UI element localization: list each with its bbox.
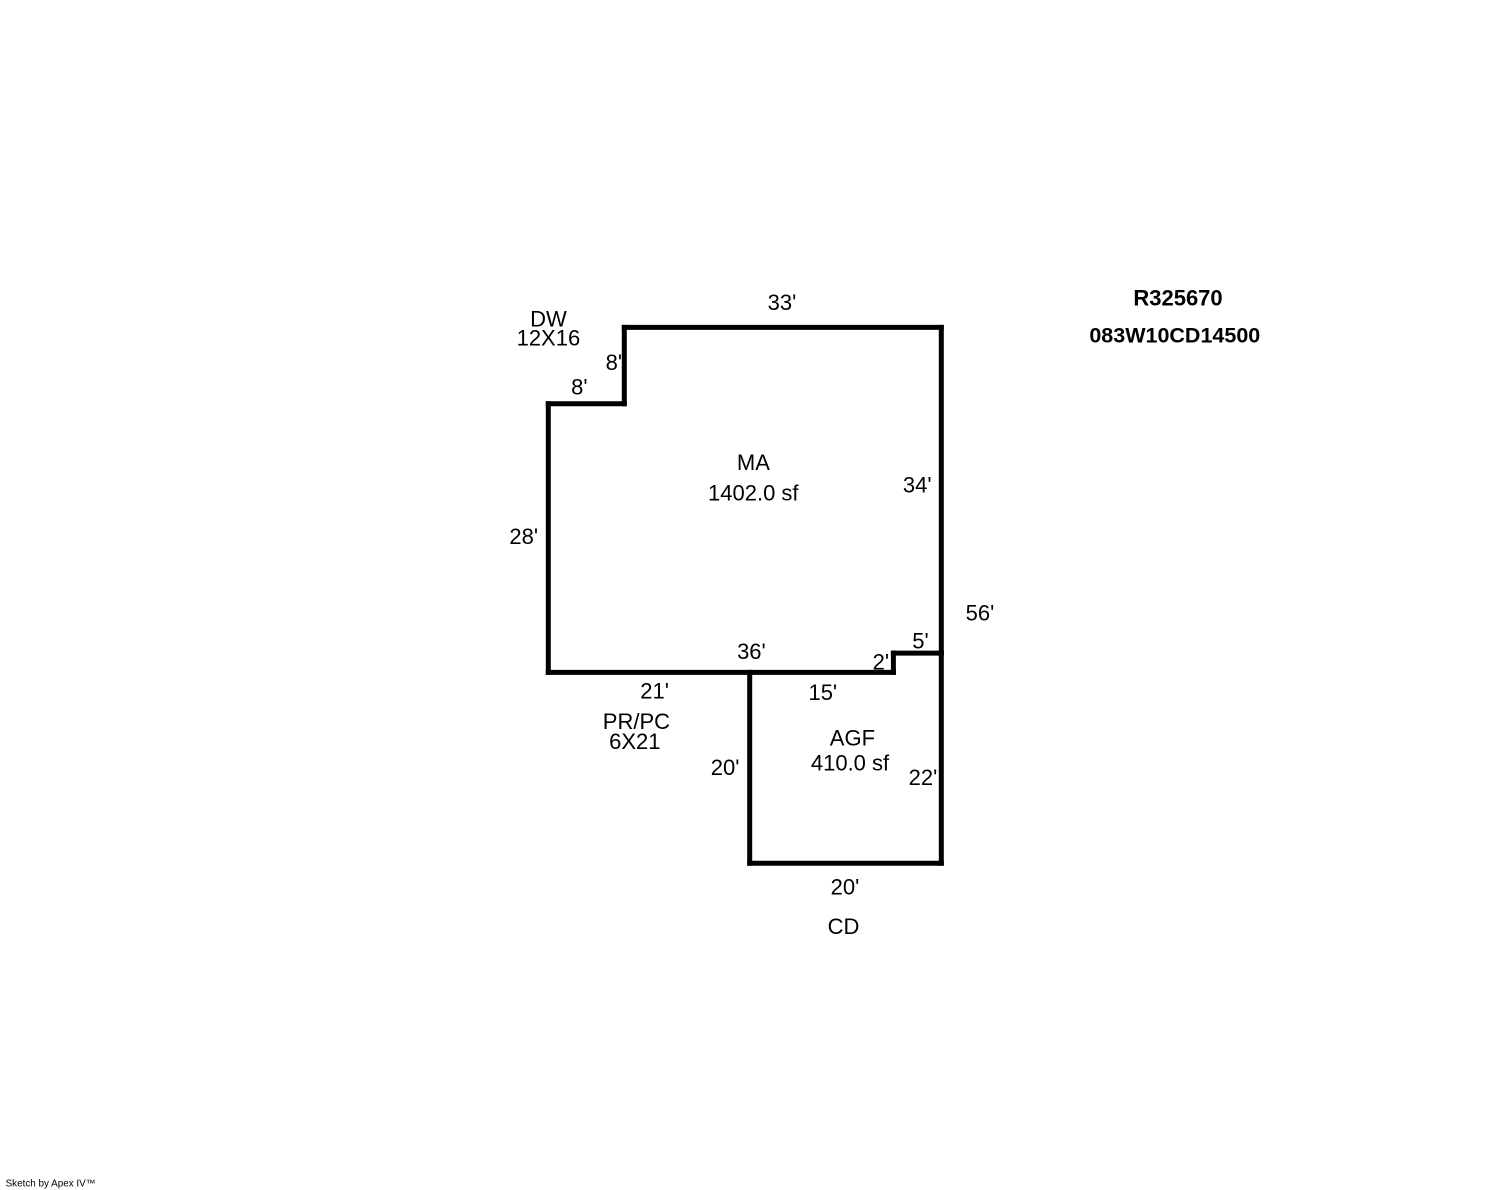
svg-text:8': 8' — [571, 375, 587, 400]
wall: MA notch vertical 8' — [622, 327, 627, 403]
wall: AGF right 22' — [939, 653, 944, 863]
svg-text:20': 20' — [711, 755, 740, 780]
svg-text:36': 36' — [737, 639, 766, 664]
wall: MA top 33' — [624, 325, 941, 330]
svg-text:12X16: 12X16 — [517, 326, 581, 351]
svg-text:R325670: R325670 — [1133, 286, 1222, 311]
svg-text:56': 56' — [966, 600, 995, 625]
svg-text:6X21: 6X21 — [609, 729, 660, 754]
svg-text:28': 28' — [509, 524, 538, 549]
svg-text:2': 2' — [873, 649, 889, 674]
svg-text:1402.0 sf: 1402.0 sf — [708, 481, 799, 506]
svg-text:MA: MA — [737, 450, 770, 475]
wall: MA left 28' — [546, 404, 551, 673]
svg-text:410.0 sf: 410.0 sf — [811, 751, 890, 776]
svg-text:Sketch by Apex IV™: Sketch by Apex IV™ — [6, 1179, 96, 1190]
svg-text:34': 34' — [903, 472, 932, 497]
wall: MA bottom 36' — [548, 670, 893, 675]
svg-text:083W10CD14500: 083W10CD14500 — [1089, 323, 1260, 347]
svg-text:5': 5' — [912, 628, 928, 653]
svg-text:20': 20' — [831, 875, 860, 900]
svg-text:AGF: AGF — [830, 725, 875, 750]
svg-text:15': 15' — [808, 680, 837, 705]
svg-text:22': 22' — [909, 765, 938, 790]
svg-text:21': 21' — [640, 679, 669, 704]
wall: MA step vertical 2' — [891, 653, 896, 672]
svg-text:CD: CD — [828, 914, 860, 939]
wall: AGF bottom 20' — [750, 861, 942, 866]
svg-text:8': 8' — [606, 350, 622, 375]
wall: MA notch horizontal 8' — [548, 401, 624, 406]
wall: MA step horizontal 5' — [893, 651, 941, 656]
svg-text:33': 33' — [768, 290, 797, 315]
wall: MA right 34' — [939, 327, 944, 653]
wall: AGF divider 20' — [747, 672, 752, 863]
